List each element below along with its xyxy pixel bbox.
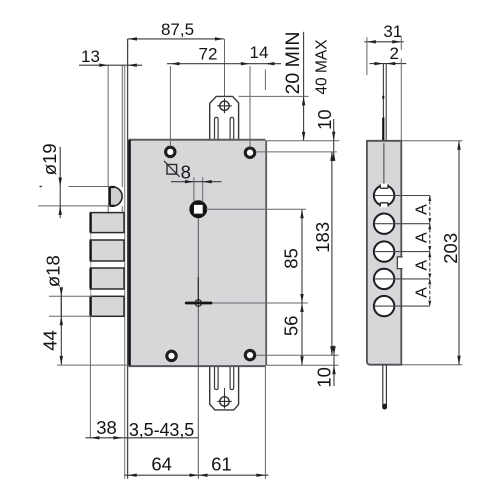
side body right extension up (400, 37, 402, 50)
lock body (front view) (129, 141, 266, 365)
svg-text:A: A (413, 260, 430, 271)
cylinder hole A3 (374, 241, 394, 261)
spindle follower centerline down (197, 218, 199, 479)
dim 64 / 61 line (124, 474, 268, 476)
svg-text:64: 64 (151, 453, 172, 474)
cylinder hole extension lines (374, 195, 430, 197)
svg-text:8: 8 (181, 162, 191, 183)
side body bottom extension right (402, 364, 463, 366)
screw hole bottom-right (245, 350, 254, 359)
body right edge extension down (264, 365, 266, 479)
key shaft above body (382, 64, 384, 141)
top bracket slot left (215, 117, 219, 140)
extension line left screw (169, 66, 171, 146)
side body left extension up (366, 37, 368, 75)
bolt stack: deadbolt 2 (90, 240, 124, 261)
svg-text:56: 56 (280, 316, 301, 337)
side view body (367, 141, 401, 365)
bracket top extension line (239, 95, 309, 97)
svg-text:183: 183 (312, 222, 333, 253)
key shaft centerline inside body (383, 143, 385, 201)
key tip below body (382, 365, 384, 406)
dim 72 / 14 line (167, 63, 281, 65)
follower extension line right (206, 208, 306, 210)
svg-text:A: A (413, 232, 430, 243)
wire: faceplate right edge line (121, 65, 123, 187)
svg-text:87,5: 87,5 (161, 20, 194, 39)
svg-text:ø18: ø18 (43, 255, 64, 287)
latch adjuster crosshair (185, 302, 308, 304)
top bracket screw hole with cross (220, 101, 229, 110)
bolt stack: deadbolt 3 (90, 268, 124, 289)
svg-text:14: 14 (250, 43, 269, 62)
screw hole top-left (166, 147, 175, 156)
svg-text:2: 2 (389, 44, 398, 63)
screw hole bottom-left (167, 351, 176, 360)
bolt stack: deadbolt 4 (90, 296, 124, 316)
svg-text:38: 38 (96, 417, 117, 438)
svg-text:3,5-43,5: 3,5-43,5 (129, 420, 194, 440)
body top extension line right (265, 140, 339, 142)
svg-text:85: 85 (281, 248, 302, 269)
svg-text:31: 31 (383, 22, 402, 41)
bottom mounting bracket (210, 365, 239, 410)
top mounting bracket (210, 96, 239, 140)
bolt stack: deadbolt 1 (90, 213, 92, 317)
svg-text:203: 203 (440, 233, 461, 264)
square spindle symbol (167, 165, 177, 175)
svg-text:61: 61 (211, 453, 232, 474)
bottom bracket centerline (224, 388, 226, 394)
bottom bracket slot left (215, 365, 219, 389)
svg-text:ø19: ø19 (39, 143, 60, 175)
svg-text:10: 10 (313, 367, 334, 388)
cylinder hole A1 with keyway notches (374, 185, 394, 205)
extension line right screw (249, 66, 251, 147)
node: cylinder axis centerline (224, 39, 226, 131)
cylinder hole A5 (374, 296, 394, 316)
dim A chain dashed line (429, 196, 431, 307)
spindle follower hub (191, 202, 205, 216)
extension from top screw to 183 (256, 151, 337, 153)
side body top extension right (402, 140, 463, 142)
svg-text:A: A (413, 204, 430, 215)
side body right-edge notch (397, 257, 402, 269)
body bottom extension left (57, 364, 128, 366)
extension line body right edge up (264, 70, 266, 91)
svg-text:40 MAX: 40 MAX (313, 39, 330, 95)
extension from bottom screw to 183 (256, 354, 338, 356)
wire: mounting plate line left (124, 66, 126, 479)
svg-text:20 MIN: 20 MIN (282, 32, 304, 95)
auxiliary latch o19 D-shape (109, 187, 122, 206)
svg-text:10: 10 (314, 109, 335, 130)
bottom bracket slot right (230, 365, 234, 389)
screw hole top-right (245, 148, 254, 157)
bolt tip extension line (89, 316, 91, 438)
svg-text:A: A (413, 287, 430, 298)
cylinder hole A2 (374, 214, 394, 234)
wire: faceplate left edge line (107, 65, 109, 187)
svg-text:72: 72 (199, 45, 218, 64)
body bottom extension right (265, 364, 338, 366)
svg-text:44: 44 (40, 330, 61, 351)
bottom bracket screw hole with cross (220, 397, 229, 406)
wire: mounting plate line right / body left extension (127, 39, 129, 479)
cylinder hole A4 (374, 269, 394, 289)
dim 8 extension lines (193, 177, 195, 202)
top bracket slot right (230, 117, 234, 140)
dim 8 line (171, 181, 222, 183)
svg-text:13: 13 (81, 47, 100, 66)
